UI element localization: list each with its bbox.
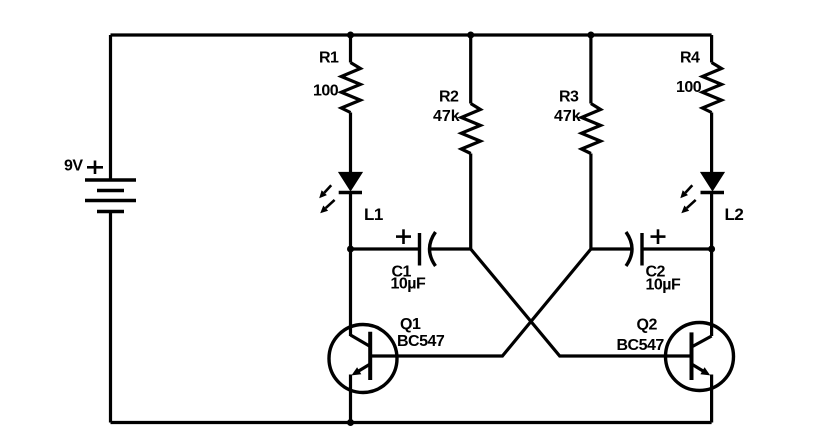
wire bottom rail (111, 421, 712, 424)
svg-text:9V: 9V (64, 158, 83, 175)
svg-text:BC547: BC547 (617, 337, 665, 354)
LED L2 light arrows (680, 185, 695, 213)
value 100 (R1) (313, 83, 339, 100)
svg-text:100: 100 (676, 79, 702, 96)
wire R3 node to C2 (591, 247, 632, 250)
label R4 (680, 50, 700, 67)
label C1 (392, 264, 412, 281)
LED L1 (339, 173, 362, 193)
svg-text:100: 100 (313, 83, 339, 100)
wire node B to Q2 collector (710, 249, 713, 336)
wire R3 bottom lead (589, 154, 592, 250)
svg-text:47k: 47k (554, 108, 581, 125)
svg-text:10µF: 10µF (646, 277, 682, 294)
wire L1 to node A (349, 193, 352, 250)
transistor Q2 emitter with arrow (692, 364, 712, 423)
resistor R3 (582, 104, 601, 154)
resistor R4 (702, 63, 721, 113)
node dot top rail at R3 (587, 32, 594, 39)
value 10uF (C1) (391, 276, 427, 293)
LED L2 (701, 173, 725, 193)
wire cross-coupling R2 node to Q2 base (471, 249, 692, 356)
LED L1 light arrows (319, 185, 334, 213)
resistor R1 (341, 63, 360, 113)
wire R4 top lead (710, 35, 713, 63)
svg-text:Q2: Q2 (637, 317, 658, 334)
wire R3 top lead (589, 35, 592, 104)
battery B1 9V (85, 180, 136, 212)
svg-text:L1: L1 (364, 205, 383, 224)
wire L2 to node B (710, 193, 713, 250)
C2 plus sign (651, 229, 666, 244)
transistor Q2 circle (666, 323, 734, 391)
transistor Q1 emitter with arrow (351, 364, 371, 423)
svg-text:BC547: BC547 (397, 333, 445, 350)
svg-text:R4: R4 (680, 50, 700, 67)
wire R2 top lead (469, 35, 472, 104)
transistor Q1 circle (329, 325, 397, 393)
value 10uF (C2) (646, 277, 682, 294)
node dot top rail at R1 (347, 32, 354, 39)
wire R1 to L1 (349, 113, 352, 174)
svg-text:47k: 47k (433, 108, 460, 125)
label L2 (725, 205, 744, 224)
wire C2 to node B (642, 247, 712, 250)
label L1 (364, 205, 383, 224)
node A junction dot (347, 246, 354, 253)
transistor Q1 base bar (368, 332, 372, 380)
node dot top rail at R2 (467, 32, 474, 39)
capacitor C2 (626, 232, 642, 266)
label R2 (439, 89, 459, 106)
label BC547 (Q1) (397, 333, 445, 350)
wire left rail lower (battery negative lead) (109, 212, 112, 423)
transistor Q2 collector (692, 336, 712, 347)
value 100 (R4) (676, 79, 702, 96)
svg-text:R2: R2 (439, 89, 459, 106)
label BC547 (Q2) (617, 337, 665, 354)
svg-text:R3: R3 (559, 89, 579, 106)
wire top rail (111, 33, 712, 36)
battery label 9V (64, 158, 83, 175)
resistor R2 (461, 104, 480, 154)
svg-text:L2: L2 (725, 205, 744, 224)
label Q1 (400, 316, 421, 333)
svg-text:R1: R1 (319, 50, 339, 67)
wire C1 to R2 node (430, 247, 471, 250)
capacitor C1 (420, 232, 436, 266)
wire R1 top lead (349, 35, 352, 63)
node dot bottom rail at Q1 emitter (347, 419, 354, 426)
wire node A to C1 (351, 247, 420, 250)
label C2 (646, 264, 666, 281)
label Q2 (637, 317, 658, 334)
transistor Q1 collector (351, 249, 371, 347)
C1 plus sign (396, 229, 411, 244)
transistor Q2 base bar (690, 332, 694, 380)
label R3 (559, 89, 579, 106)
node B junction dot (708, 246, 715, 253)
value 47k (R3) (554, 108, 581, 125)
battery plus sign (87, 161, 103, 175)
wire left rail upper (battery positive lead) (109, 35, 112, 180)
label R1 (319, 50, 339, 67)
wire R2 bottom lead (469, 154, 472, 250)
svg-text:Q1: Q1 (400, 316, 421, 333)
wire R4 to L2 (710, 113, 713, 174)
value 47k (R2) (433, 108, 460, 125)
wire cross-coupling R3 node to Q1 base (370, 249, 591, 356)
svg-text:10µF: 10µF (391, 276, 427, 293)
